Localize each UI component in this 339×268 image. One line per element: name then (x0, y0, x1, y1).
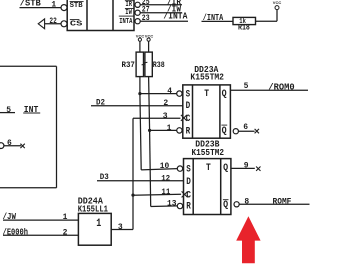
wire pin 2 /E000h (3, 234, 78, 236)
svg-text:23: 23 (142, 14, 150, 23)
svg-text:D2: D2 (96, 98, 105, 108)
svg-text:CS: CS (70, 20, 83, 28)
wire R37 net down to pin10 corner (140, 94, 177, 170)
wire pin 5 INT stub (0, 112, 15, 114)
svg-text:ROMF: ROMF (273, 197, 292, 207)
pin number 3 (163, 112, 168, 121)
wire R18 to VCC (256, 10, 278, 22)
svg-text:/ROM0: /ROM0 (268, 83, 294, 93)
wire R38 down to R line (149, 77, 150, 131)
part K155TM2 of DD23A (190, 72, 224, 82)
wire R38 net down to pin13 corner (150, 130, 178, 206)
wire VCC to R38 (148, 41, 150, 52)
wire arrow to pin 22 (44, 23, 61, 25)
wire pin 25 /IR (140, 4, 182, 6)
wire pin 3 C input (133, 117, 180, 119)
op DD23A body (183, 85, 231, 138)
net label /E000h (3, 227, 28, 237)
refdes DD24A (78, 196, 104, 206)
pin number 11 (161, 188, 170, 197)
wire /INTA to R18 (202, 20, 234, 22)
wire DD24A output up to C inputs (132, 118, 134, 229)
svg-text:R: R (186, 201, 191, 212)
value 1k of R18 (239, 18, 246, 26)
svg-text:STB: STB (70, 2, 83, 10)
refdes R37 (122, 60, 135, 70)
DD23A label C (186, 114, 191, 125)
net label INT (23, 105, 40, 115)
refdes DD23A (194, 65, 219, 75)
VCC text right (145, 33, 154, 38)
resistor R37 body (136, 52, 143, 77)
DD23B label C (186, 190, 191, 201)
no-connect mark pin 6 left (20, 144, 24, 148)
svg-text:/E000h: /E000h (3, 227, 28, 237)
svg-text:22: 22 (49, 17, 57, 26)
wire VCC to R37 (139, 41, 141, 52)
IC top chip body (cut off at top) (67, 0, 134, 31)
svg-text:D: D (186, 101, 191, 112)
pin number 27 (142, 6, 150, 15)
net label /ROM0 (268, 83, 294, 93)
svg-text:2: 2 (163, 99, 168, 108)
net label /IR (167, 0, 182, 7)
red arrow marker (236, 216, 260, 263)
DD23A label Qbar (221, 125, 227, 137)
svg-text:D: D (186, 177, 191, 188)
part K155TM2 of DD23B (192, 148, 225, 158)
net label ROMF (273, 197, 292, 207)
svg-text:5: 5 (6, 106, 11, 115)
pin number 3 of DD24A (118, 223, 123, 232)
svg-text:1: 1 (63, 213, 68, 222)
DD23B R input bubble pin 13 (177, 203, 182, 208)
power rating mark R38 (144, 61, 148, 64)
svg-text:6: 6 (243, 123, 248, 132)
pin number 9 (244, 161, 249, 170)
svg-text:10: 10 (160, 162, 170, 171)
svg-text:Q: Q (222, 89, 227, 100)
top chip label CS (inverted) (70, 20, 83, 29)
wire pin 2 from D2 (91, 105, 183, 107)
refdes DD23B (195, 140, 220, 150)
junction R38 on pin1 line (148, 129, 151, 132)
DD23A label Q (222, 89, 227, 100)
DD23A label R (186, 126, 191, 137)
VCC text left (136, 33, 145, 38)
DD23B label S (186, 164, 191, 175)
svg-text:1: 1 (96, 218, 101, 230)
top chip label STB (inverted) (70, 2, 84, 11)
svg-text:6: 6 (7, 139, 12, 148)
svg-text:T: T (206, 163, 211, 174)
wire pin 27 /IW (140, 12, 182, 14)
wire pin 23 /INTA (140, 20, 188, 22)
svg-text:T: T (204, 89, 209, 100)
net label /IW (167, 5, 182, 15)
wire pin 3 output (111, 229, 133, 231)
svg-text:13: 13 (167, 200, 177, 209)
wire pin 8 ROMF (239, 203, 309, 205)
pin number 23 (142, 14, 150, 23)
pin number 1 (51, 1, 56, 10)
DD23B label D (186, 177, 191, 188)
wire pin 1 (150, 129, 177, 131)
svg-text:Q: Q (223, 163, 228, 174)
DD23A label S (186, 90, 191, 101)
DD23B Qbar output bubble pin 8 (234, 202, 239, 207)
resistor R18 body (233, 17, 256, 24)
wire pin 9 Q output (231, 167, 255, 169)
wire pin 1 /JW (3, 219, 78, 221)
svg-text:1: 1 (167, 124, 172, 133)
pin number 22 (49, 17, 57, 26)
svg-text:Q: Q (222, 126, 227, 137)
no-connect mark pin 9 (256, 167, 260, 171)
net label /JW (3, 212, 17, 222)
DD23B label T (206, 163, 211, 174)
svg-text:R18: R18 (238, 24, 250, 33)
pin number 6 left (7, 139, 12, 148)
pin 25 bubble on IR output (135, 2, 140, 7)
net label /INTA at R18 (203, 13, 224, 23)
refdes R38 (153, 60, 165, 70)
wire pin 5 Q output /ROM0 (230, 89, 308, 91)
DD23B C dynamic input mark (182, 191, 188, 197)
pin 1 bubble on STB input (61, 5, 67, 11)
svg-text:9: 9 (244, 161, 249, 170)
top chip label IR (inverted) (125, 1, 134, 9)
svg-text:/INTA: /INTA (163, 11, 188, 21)
svg-text:11: 11 (161, 188, 170, 197)
svg-text:INTA: INTA (119, 18, 133, 26)
pin number 12 (161, 174, 170, 183)
svg-text:VCC: VCC (136, 33, 145, 38)
svg-text:1: 1 (51, 1, 56, 10)
net label /STB (20, 0, 42, 8)
pin number 2 (163, 99, 168, 108)
DD23A C dynamic input mark (181, 115, 187, 121)
pin number 5 (244, 82, 249, 91)
junction DD24A net with pin 11 line (131, 194, 134, 197)
svg-text:S: S (186, 90, 191, 101)
no-connect mark pin 6 (255, 129, 259, 133)
svg-text:IR: IR (126, 1, 133, 9)
svg-text:D3: D3 (100, 172, 109, 182)
pin number 4 (167, 87, 172, 96)
DD24A OR symbol 1 (96, 218, 101, 230)
svg-text:/JW: /JW (3, 212, 17, 222)
wire loop bottom segment (0, 187, 57, 189)
DD23B label R (186, 201, 191, 212)
junction R37 on pin4 line (138, 92, 141, 95)
DD23A S input bubble pin 4 (177, 91, 182, 96)
wire pin 6 left (4, 145, 21, 147)
svg-text:R37: R37 (122, 60, 135, 70)
svg-text:2: 2 (63, 228, 68, 237)
pin 27 bubble on IW output (135, 10, 140, 15)
svg-text:R38: R38 (153, 60, 165, 70)
wire R37 down to S line (139, 77, 141, 94)
top chip label IW (inverted) (125, 9, 134, 18)
wire /STB to pin 1 (20, 7, 62, 9)
DD23B label Q (223, 163, 228, 174)
refdes R18 (238, 24, 250, 33)
off-page arrow on CS wire (38, 19, 44, 29)
svg-text:S: S (186, 164, 191, 175)
svg-text:VCC: VCC (145, 33, 154, 38)
DD23A R input bubble pin 1 (177, 128, 182, 133)
pin number 1 of DD24A (63, 213, 68, 222)
DD23B label Qbar (223, 200, 229, 211)
part K155LL1 of DD24A (78, 204, 109, 214)
svg-text:VCC: VCC (273, 0, 282, 5)
wire pin 4 (140, 93, 177, 95)
op DD23B body (184, 159, 231, 215)
wire loop top segment (0, 65, 57, 67)
svg-text:4: 4 (167, 87, 172, 96)
VCC terminal right (147, 38, 150, 41)
pin number 25 (142, 0, 150, 7)
wire pin 12 from D3 (97, 180, 184, 182)
pin number 13 (167, 200, 177, 209)
wire loop vertical segment (56, 66, 58, 188)
VCC terminal left (138, 38, 141, 41)
net label /INTA (163, 11, 188, 21)
VCC terminal at R18 (275, 6, 279, 10)
svg-text:/STB: /STB (20, 0, 42, 8)
DD23A label T (204, 89, 209, 100)
net label D3 (100, 172, 109, 182)
svg-text:12: 12 (161, 174, 170, 183)
wire pin 6 (238, 130, 254, 132)
pin number 1 of DD23A (167, 124, 172, 133)
svg-text:R: R (186, 126, 191, 137)
svg-text:3: 3 (163, 112, 168, 121)
pin 6 bubble left edge (0, 143, 4, 149)
svg-text:8: 8 (244, 198, 249, 207)
pin number 10 (160, 162, 170, 171)
wire pin 11 C input (133, 194, 181, 195)
resistor R38 body (145, 52, 152, 77)
gate DD24A body (78, 213, 111, 245)
net label D2 (96, 98, 105, 108)
top chip label INTA (inverted) (119, 16, 134, 26)
DD23A Qbar output bubble pin 6 (233, 129, 238, 134)
svg-text:K155TM2: K155TM2 (190, 72, 224, 82)
svg-text:3: 3 (118, 223, 123, 232)
VCC text at R18 (273, 0, 282, 5)
svg-text:5: 5 (244, 82, 249, 91)
svg-text:Q: Q (223, 200, 228, 211)
svg-text:INT: INT (24, 105, 39, 115)
pin number 5 left (6, 106, 11, 115)
pin number 2 of DD24A (63, 228, 68, 237)
power rating mark R37 (142, 63, 146, 66)
pin number 8 (244, 198, 249, 207)
pin 22 bubble on CS input (61, 21, 67, 27)
pin 23 bubble on INTA output (135, 19, 140, 24)
svg-text:K155TM2: K155TM2 (192, 148, 225, 158)
DD23B S input bubble pin 10 (177, 166, 182, 171)
DD23A label D (186, 101, 191, 112)
pin number 6 (243, 123, 248, 132)
